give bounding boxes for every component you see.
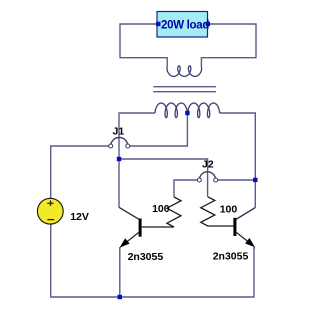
wire left emitter down to ground rail bbox=[119, 248, 121, 297]
wire top-right loop from load to transformer secondary bbox=[201, 24, 256, 67]
transistor Q1 base bar bbox=[139, 219, 142, 237]
resistor R1 100 ohm (left) bbox=[142, 197, 181, 227]
wire primary left lead and left collector drop bbox=[119, 113, 155, 207]
node: right collector junction bbox=[253, 178, 257, 182]
battery minus mark bbox=[47, 219, 54, 221]
svg-text:20W load: 20W load bbox=[161, 19, 209, 31]
resistor R2 100 ohm (right) bbox=[201, 197, 234, 226]
svg-text:2n3055: 2n3055 bbox=[213, 251, 249, 263]
transistor Q2 base bar bbox=[233, 218, 236, 236]
wire J2 right terminal to right collector node bbox=[218, 179, 256, 181]
transistor Q1 2n3055 (left, mirrored) collector lead bbox=[119, 207, 139, 219]
transistor Q2 emitter wire stub bbox=[253, 247, 255, 249]
transformer T1 core bbox=[153, 87, 216, 92]
wire battery minus down to ground rail bbox=[51, 224, 254, 297]
transformer T1 primary winding left half bbox=[155, 103, 187, 118]
svg-text:2n3055: 2n3055 bbox=[128, 251, 164, 263]
battery B1 12V source circle bbox=[37, 198, 63, 224]
wire battery plus to J1 left terminal bbox=[51, 146, 109, 199]
wire J1 right terminal to transformer centre tap bbox=[130, 113, 188, 146]
load LP1 20W lamp rectangle bbox=[157, 12, 208, 38]
transistor Q2 emitter lead bbox=[236, 232, 253, 245]
svg-text:12V: 12V bbox=[70, 211, 89, 223]
wire J2 left terminal down to left resistor top bbox=[174, 180, 197, 197]
jumper J1 terminal circles bbox=[109, 144, 113, 148]
wire left collector node across to right base resistor (through J2) bbox=[119, 159, 208, 197]
node: load right terminal bbox=[206, 22, 210, 26]
node: load left terminal bbox=[156, 22, 160, 26]
node: emitter ground rail junction bbox=[118, 295, 122, 299]
transistor Q1 emitter wire stub bbox=[119, 247, 121, 248]
jumper J1 arc bbox=[111, 137, 128, 146]
wire primary right lead and right collector drop bbox=[220, 113, 256, 208]
battery plus mark bbox=[47, 200, 53, 206]
svg-text:100: 100 bbox=[152, 203, 170, 215]
jumper J2 terminal circles bbox=[197, 178, 201, 182]
node: left collector junction bbox=[117, 157, 121, 161]
transistor Q2 emitter arrow bbox=[245, 238, 255, 247]
svg-text:100: 100 bbox=[220, 204, 238, 216]
transistor Q2 2n3055 (right) collector lead bbox=[236, 208, 255, 220]
jumper J2 arc bbox=[199, 172, 215, 180]
node: transformer centre tap bbox=[185, 111, 189, 115]
transformer T1 primary winding right half bbox=[188, 103, 220, 118]
transformer T1 secondary winding bbox=[167, 66, 202, 77]
wire top-left loop from load to transformer secondary bbox=[120, 24, 167, 67]
transistor Q1 emitter arrow bbox=[120, 238, 130, 247]
svg-text:J2: J2 bbox=[202, 158, 214, 170]
svg-text:J1: J1 bbox=[113, 126, 125, 138]
transistor Q1 emitter lead bbox=[122, 232, 139, 245]
